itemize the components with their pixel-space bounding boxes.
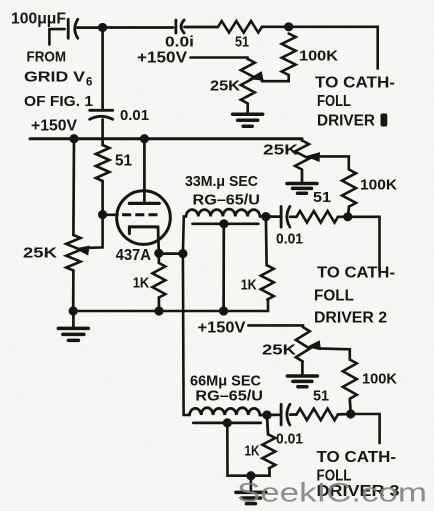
label 25K grid pot	[23, 245, 57, 262]
label 100K stage3	[362, 371, 397, 388]
wire delay-line bus vertical	[183, 216, 186, 253]
delay line DL1 coil 33MuSEC RG-65/U	[186, 209, 260, 216]
svg-text:TO CATH-: TO CATH-	[315, 75, 395, 92]
label 100uuF	[11, 11, 66, 28]
svg-text:0.01: 0.01	[120, 107, 149, 124]
svg-text:51: 51	[235, 34, 249, 51]
label TO CATH- 1	[315, 75, 395, 92]
wire +150V to R3 top	[191, 58, 248, 60]
label FOLL 1	[317, 93, 351, 110]
label 100K stage1	[299, 48, 338, 65]
potentiometer R11 25K driver3	[296, 327, 310, 362]
tube V1 grid dashes	[122, 213, 158, 216]
resistor R8 100K driver2	[342, 170, 356, 207]
wire cathode to delay-line bus	[159, 252, 183, 255]
potentiometer R5 wiper arrow	[74, 244, 90, 256]
svg-text:+150V: +150V	[198, 320, 247, 337]
svg-text:1K: 1K	[133, 275, 150, 292]
wire DL2 to node F	[260, 414, 267, 417]
delay line DL1 shield	[193, 222, 259, 225]
label 33MuSEC	[185, 173, 258, 190]
label FOLL 2	[314, 288, 354, 305]
svg-text:1K: 1K	[241, 277, 257, 294]
node R6 bottom	[154, 306, 163, 315]
capacitor C5 0.01 stage3 coupling	[281, 404, 290, 425]
wire +150V rail	[30, 137, 302, 140]
wire R12 to node E	[348, 399, 352, 414]
wire input stub from grid V6	[49, 29, 64, 44]
label RG-65/U 2	[195, 388, 263, 405]
label TO CATH- 3	[317, 449, 397, 466]
ground bottom (stage 3)	[236, 476, 266, 504]
potentiometer R11 wiper arrow	[305, 340, 321, 352]
svg-text:RG–65/U: RG–65/U	[193, 192, 261, 209]
potentiometer R9 25K driver2	[295, 141, 309, 170]
tube V1 437A envelope	[117, 191, 171, 245]
potentiometer R9 wiper arrow	[305, 151, 320, 162]
label 51 stage3	[313, 388, 329, 405]
node G grid junction	[98, 210, 107, 219]
watermark SeekIC.com	[237, 478, 427, 508]
ground below R11	[287, 362, 317, 387]
label 1K delay1 term	[241, 277, 257, 294]
svg-text:TO CATH-: TO CATH-	[317, 449, 397, 466]
label 0.01 top	[165, 35, 194, 51]
wire cathode node to R6	[157, 253, 160, 263]
svg-text:OF FIG. 1: OF FIG. 1	[24, 93, 93, 110]
wire node C to R7	[265, 217, 268, 266]
label DRIVER 1	[317, 112, 387, 129]
resistor R10 51 ohm stage2	[297, 211, 339, 223]
wire rail to R9 top	[301, 139, 304, 141]
resistor R7 1K delay1 termination	[261, 265, 274, 299]
node cathode-return left	[69, 306, 78, 315]
label DRIVER 2	[314, 310, 387, 327]
wire R8 to node D	[348, 207, 349, 217]
wire node A to C2	[103, 26, 173, 29]
svg-text:FROM: FROM	[27, 49, 67, 66]
svg-text:25K: 25K	[263, 142, 298, 159]
node E driver3 output junction	[346, 409, 355, 418]
svg-text:TO CATH-: TO CATH-	[317, 265, 395, 282]
wire C5 to R13	[290, 413, 296, 416]
node rail-R5 junction	[69, 134, 78, 143]
resistor R1 51 ohm	[218, 21, 262, 33]
potentiometer R5 25K grid bias	[66, 235, 80, 271]
ground below R9	[287, 171, 317, 194]
label TO CATH- 2	[317, 265, 395, 282]
tube V1 grid stub	[103, 213, 118, 216]
label 51 top	[235, 34, 249, 51]
label 51 stage2	[313, 189, 331, 206]
wire grid node to R5 wiper	[86, 215, 103, 248]
capacitor C4 0.01 stage2 coupling	[281, 207, 290, 228]
node DL2 shield tap	[223, 418, 232, 427]
svg-text:FOLL: FOLL	[314, 288, 354, 305]
delay line DL2 coil 66MuSEC RG-65/U	[190, 408, 260, 415]
wire R10 to node D	[338, 215, 348, 218]
wire node B to cath-foll driver 1	[289, 27, 378, 69]
wire R9 wiper to R8 top	[317, 156, 349, 169]
svg-text:25K: 25K	[23, 245, 57, 262]
wire C3 to R4	[101, 120, 104, 146]
label 0.01 stage3	[276, 431, 303, 448]
label 66MuSEC	[190, 373, 261, 390]
svg-text:0.01: 0.01	[276, 431, 303, 448]
node ground-bus junction	[246, 471, 255, 480]
label +150V top	[137, 50, 188, 67]
node D driver2 output junction	[343, 212, 352, 221]
svg-text:GRID V: GRID V	[24, 69, 85, 86]
resistor R4 51 ohm grid series	[96, 145, 110, 181]
label 0.01 grid cap	[120, 107, 149, 124]
ground below R3	[233, 104, 263, 127]
svg-text:SeekIC.com: SeekIC.com	[237, 478, 427, 508]
wire R4 to grid node	[101, 181, 104, 215]
wire C2 to R1	[185, 26, 219, 29]
label DRIVER 3	[317, 483, 400, 500]
resistor R13 51 ohm stage3	[297, 409, 339, 421]
resistor R6 1K cathode load	[152, 263, 165, 298]
tube V1 plate lead	[143, 139, 146, 204]
svg-text:437A: 437A	[116, 247, 151, 264]
label 100K stage2	[360, 177, 397, 194]
resistor R14 1K delay2 termination	[262, 435, 275, 469]
label 437A	[116, 247, 151, 264]
svg-text:+150V: +150V	[137, 50, 188, 67]
delay line DL2 shield	[193, 422, 260, 425]
capacitor C3 0.01 grid series	[90, 110, 113, 119]
svg-text:0.01: 0.01	[276, 231, 303, 248]
wire rail to R5 top	[72, 139, 75, 235]
wire R5 bottom to ground node	[72, 271, 75, 311]
node delay-line bus junction	[178, 249, 187, 258]
label RG-65/U 1	[193, 192, 261, 209]
svg-text:25K: 25K	[210, 78, 240, 95]
node rail-plate junction	[140, 134, 149, 143]
wire node C to C4	[266, 215, 281, 218]
node DL1 shield tap	[219, 219, 228, 228]
svg-text:6: 6	[86, 77, 92, 89]
label +150V left	[31, 118, 78, 135]
svg-text:DRIVER 2: DRIVER 2	[314, 310, 387, 327]
wire node F to C5	[267, 413, 281, 416]
label FOLL 3	[317, 468, 352, 485]
wire +150V to R11 top	[248, 325, 303, 327]
wire node E to cath-foll driver 3	[351, 414, 380, 443]
svg-text:+150V: +150V	[31, 118, 78, 135]
svg-text:100K: 100K	[362, 371, 397, 388]
svg-text:51: 51	[115, 153, 132, 170]
node B driver1 output junction	[284, 22, 293, 31]
capacitor C1 100uuF input coupling	[68, 19, 78, 38]
svg-text:RG–65/U: RG–65/U	[195, 388, 263, 405]
svg-text:FOLL: FOLL	[317, 93, 351, 110]
wire bus down to delay line 2	[183, 254, 190, 415]
label +150V stage3	[198, 320, 247, 337]
wire node A down to C3	[101, 28, 104, 111]
capacitor C2 0.01 top coupling	[176, 20, 184, 33]
wire C4 to R10	[290, 215, 296, 218]
wire R14 to ground bus	[268, 468, 271, 475]
label OF FIG. 1	[24, 93, 93, 110]
wire R6 to bottom return	[158, 298, 161, 312]
wire node D to cath-foll driver 2	[348, 217, 380, 271]
wire DL1 shield to return bus	[222, 224, 225, 311]
wire R11 wiper to R12 top	[318, 348, 350, 359]
wire node F to R14	[267, 415, 268, 435]
svg-text:100K: 100K	[360, 177, 397, 194]
wire C1 to node A	[78, 26, 103, 29]
resistor R12 100K driver3	[343, 360, 357, 399]
label 0.01 stage2	[276, 231, 303, 248]
svg-text:33M.μ SEC: 33M.μ SEC	[185, 173, 258, 190]
tube V1 cathode lead	[157, 227, 161, 253]
tube V1 cathode	[129, 227, 158, 234]
wire bottom return bus	[73, 300, 268, 312]
potentiometer R3 wiper arrow	[247, 71, 263, 84]
node A input junction	[98, 23, 107, 32]
label GRID V6	[24, 69, 92, 89]
node shield1 tap on return bus	[219, 306, 228, 315]
wire DL1 to node C	[260, 215, 266, 218]
wire R1 to node B	[262, 25, 289, 28]
svg-text:25K: 25K	[262, 342, 296, 359]
svg-text:100K: 100K	[299, 48, 338, 65]
svg-text:51: 51	[313, 189, 331, 206]
label 1K cathode	[133, 275, 150, 292]
node K cathode junction	[154, 249, 163, 258]
wire R2 bottom to wiper arrow of R3	[262, 75, 289, 81]
label 25K stage3	[262, 342, 296, 359]
svg-text:0.0i: 0.0i	[165, 35, 194, 51]
label 25K stage2	[263, 142, 298, 159]
potentiometer R3 25K driver1	[241, 59, 255, 104]
node F delay2 output	[262, 410, 271, 419]
label 51 grid	[115, 153, 132, 170]
tube V1 plate bar	[129, 202, 159, 205]
svg-text:51: 51	[313, 388, 329, 405]
wire R13 to node E	[338, 413, 351, 416]
svg-text:100μμF: 100μμF	[11, 11, 66, 28]
svg-text:DRIVER: DRIVER	[317, 112, 375, 129]
label FROM	[27, 49, 67, 66]
wire DL2 shield to ground bus	[227, 423, 269, 476]
resistor R2 100K driver1	[282, 34, 296, 76]
label 1K delay2 term	[245, 443, 260, 460]
node C delay1 output	[261, 212, 270, 221]
svg-text:1K: 1K	[245, 443, 260, 460]
label 25K stage1	[210, 78, 240, 95]
ground left (below R5)	[58, 310, 88, 340]
